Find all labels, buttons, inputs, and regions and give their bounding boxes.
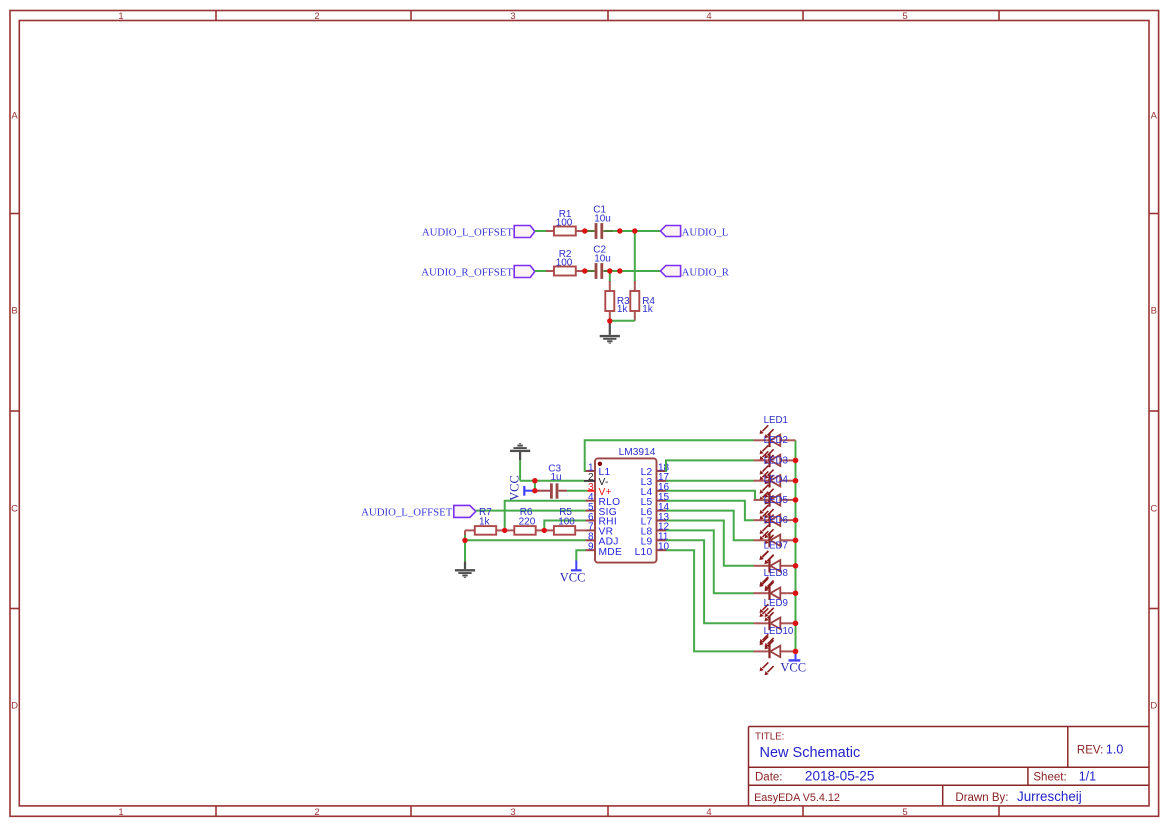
LED LED10 (754, 626, 796, 675)
junction R6/R5 RHI (542, 528, 547, 533)
LED LED7 (754, 541, 796, 590)
svg-text:LED3: LED3 (764, 455, 788, 466)
svg-text:VCC: VCC (560, 570, 586, 584)
junction V+ row (532, 488, 537, 493)
capacitor C1 (593, 205, 611, 239)
svg-text:Jurrescheij: Jurrescheij (1017, 789, 1082, 804)
LED LED1 (754, 415, 796, 464)
wire AUDIO_R node down to R3 (609, 271, 611, 282)
wire pin 12 to LED8 (666, 530, 754, 593)
junction bus LED2 (793, 458, 799, 464)
ground (above C3, rotated) (510, 443, 530, 460)
wire R1 to C1 (576, 230, 585, 232)
wire port to R2 (535, 270, 547, 272)
junction R7/R6 RLO (502, 528, 507, 533)
svg-text:1k: 1k (479, 516, 491, 527)
pin 9 MDE (586, 542, 623, 559)
node AUDIO_L_OFFSET port (at SIG) (361, 505, 476, 518)
pin 8 ADJ (586, 532, 619, 548)
svg-text:EasyEDA V5.4.12: EasyEDA V5.4.12 (754, 792, 840, 804)
junction bus LED8 (793, 590, 799, 596)
svg-text:New Schematic: New Schematic (760, 745, 861, 761)
wire junction V- to V+ row (534, 481, 536, 491)
LED LED9 (754, 598, 796, 647)
svg-text:220: 220 (519, 516, 536, 527)
junction R2/C2 (582, 268, 587, 273)
wire pin 13 to LED7 (666, 521, 754, 566)
wire pin 11 to LED9 (666, 540, 754, 623)
svg-text:A: A (1151, 111, 1158, 122)
wire VCC junction to C3 (536, 490, 550, 492)
resistor R2 (554, 249, 576, 276)
wire C3 to pin 3 (559, 490, 567, 492)
wire pin 17 to LED3 (666, 480, 754, 482)
svg-text:B: B (11, 306, 17, 317)
junction bus LED7 (793, 563, 799, 569)
svg-text:100: 100 (556, 217, 573, 228)
svg-text:LED9: LED9 (764, 598, 788, 609)
pin 3 V+ (588, 482, 612, 498)
svg-text:5: 5 (902, 11, 907, 22)
svg-text:4: 4 (706, 11, 711, 22)
wire pin 14 to LED6 (666, 511, 754, 541)
junction AUDIO_L wire (617, 228, 622, 233)
wire pin 18 to LED2 (665, 460, 754, 471)
wire port to pin 5 SIG (476, 510, 586, 512)
wire AUDIO_L node down to R4 (634, 231, 636, 282)
ground (below R3/R4) (600, 321, 620, 344)
svg-text:TITLE:: TITLE: (755, 732, 784, 743)
svg-text:100: 100 (558, 516, 575, 527)
svg-text:1u: 1u (551, 472, 562, 483)
pin 13 L7 (641, 512, 670, 528)
LED LED8 (754, 568, 796, 617)
svg-text:LED1: LED1 (764, 415, 788, 426)
svg-text:LED2: LED2 (764, 435, 788, 446)
svg-text:VCC: VCC (780, 661, 806, 675)
title block (749, 727, 1150, 806)
svg-text:C: C (11, 504, 18, 515)
wire VCC bus (right of LEDs) (795, 440, 797, 651)
resistor R6 (505, 507, 545, 534)
svg-text:Date:: Date: (755, 771, 783, 783)
capacitor C2 (593, 245, 611, 279)
pin 7 VR (586, 522, 614, 538)
wire ADJ row to pin 8 (465, 539, 586, 541)
VCC net flag (bus bottom) (780, 651, 806, 674)
svg-text:2018-05-25: 2018-05-25 (805, 768, 875, 783)
svg-text:2: 2 (314, 11, 319, 22)
svg-text:3: 3 (510, 807, 515, 818)
svg-text:VCC: VCC (508, 475, 522, 501)
pin 16 L4 (641, 482, 670, 498)
svg-text:10u: 10u (594, 254, 611, 265)
resistor R7 (465, 507, 505, 534)
svg-text:REV:: REV: (1077, 745, 1103, 757)
pin 6 RHI (586, 512, 617, 528)
resistor R1 (554, 209, 576, 236)
wire R4 bottom joining R3 node (634, 311, 636, 321)
node AUDIO_L_OFFSET port (top) (422, 226, 535, 239)
svg-text:Sheet:: Sheet: (1033, 771, 1066, 783)
svg-text:B: B (1151, 306, 1157, 317)
pin 2 V- (584, 472, 609, 488)
svg-text:2: 2 (314, 807, 319, 818)
wire pin 1 up and over to LED1 (585, 440, 754, 471)
ground (bottom left) (455, 562, 475, 578)
svg-text:D: D (1150, 701, 1157, 712)
wire C2 to AUDIO_R port (603, 270, 612, 272)
wire C1 to AUDIO_L port (603, 230, 613, 232)
wire R7 left end down to ground / ADJ (464, 530, 466, 536)
LED LED3 (754, 455, 796, 504)
node AUDIO_R_OFFSET port (421, 266, 535, 279)
resistor R4 (630, 291, 655, 315)
resistor R3 (605, 291, 630, 315)
op-amp U1 : LM3914 IC body (595, 447, 657, 562)
wire V- row to pin 2 (520, 480, 584, 482)
svg-text:LED8: LED8 (764, 568, 788, 579)
svg-text:5: 5 (902, 807, 907, 818)
svg-text:AUDIO_L_OFFSET: AUDIO_L_OFFSET (361, 507, 453, 519)
junction dots (462, 228, 798, 654)
wire pin 9 MDE to VCC flag (576, 550, 585, 560)
wire R2 to C2 (576, 270, 585, 272)
svg-text:1: 1 (118, 807, 123, 818)
wire pin 15 to LED5 (666, 501, 754, 521)
wire R3 bottom to ground (609, 311, 611, 321)
node AUDIO_L port (661, 226, 729, 239)
junction R3/R4 ground node (607, 318, 612, 323)
wire ground down to V- row (519, 460, 521, 480)
svg-text:1/1: 1/1 (1079, 769, 1096, 783)
wire pin 4 RLO down to R7/R6 node (505, 501, 586, 531)
svg-text:LED6: LED6 (764, 515, 788, 526)
wire port to R1 (535, 230, 547, 232)
pin 5 SIG (586, 502, 617, 518)
junction AUDIO_R wire (617, 268, 622, 273)
junction bus LED3 (793, 478, 799, 484)
LED LED2 (754, 435, 796, 484)
junction bus LED10 (793, 649, 799, 655)
wire pin 16 to LED4 (666, 491, 770, 500)
svg-text:AUDIO_L: AUDIO_L (682, 227, 729, 239)
pin 11 L9 (641, 532, 669, 548)
pin 10 L10 (635, 542, 670, 559)
junction bus LED9 (793, 621, 799, 627)
pin 18 L2 (641, 462, 670, 478)
junction bus LED6 (793, 538, 799, 544)
svg-text:LM3914: LM3914 (619, 447, 656, 458)
pin 1 L1 (586, 462, 611, 478)
pin 4 RLO (586, 492, 621, 508)
svg-text:9: 9 (588, 542, 594, 553)
svg-text:MDE: MDE (599, 547, 623, 558)
svg-text:L9: L9 (641, 537, 653, 548)
svg-text:D: D (11, 701, 18, 712)
junction bus LED4 (793, 497, 799, 503)
junction ADJ node (462, 538, 467, 543)
pin 14 L6 (641, 502, 670, 518)
pin 15 L5 (641, 492, 670, 508)
wire pin 6 RHI down to R6/R5 node (544, 521, 585, 531)
svg-text:LED10: LED10 (764, 626, 794, 637)
svg-text:AUDIO_R_OFFSET: AUDIO_R_OFFSET (421, 267, 513, 279)
wire pin 10 to LED10 (666, 550, 754, 651)
svg-text:1: 1 (118, 11, 123, 22)
svg-text:Drawn By:: Drawn By: (955, 792, 1008, 804)
junction node to R3 (607, 268, 612, 273)
pin 17 L3 (641, 472, 670, 488)
LED LED5 (754, 495, 796, 544)
node AUDIO_R port (661, 266, 730, 279)
svg-text:10u: 10u (594, 214, 611, 225)
VCC net flag (below MDE) (560, 561, 586, 585)
junction bus LED5 (793, 517, 799, 523)
capacitor C3 (548, 464, 561, 499)
VCC net flag (left of C3) (508, 475, 535, 501)
svg-text:1k: 1k (617, 304, 629, 315)
pin 12 L8 (641, 522, 670, 538)
svg-text:ADJ: ADJ (599, 537, 619, 548)
resistor R5 (544, 507, 585, 534)
svg-text:AUDIO_R: AUDIO_R (682, 267, 730, 279)
svg-text:AUDIO_L_OFFSET: AUDIO_L_OFFSET (422, 227, 514, 239)
junction V- row (532, 478, 537, 483)
svg-text:C: C (1150, 504, 1157, 515)
svg-text:1.0: 1.0 (1106, 743, 1123, 757)
svg-text:100: 100 (556, 257, 573, 268)
svg-text:1k: 1k (642, 304, 654, 315)
svg-text:A: A (11, 111, 18, 122)
svg-text:L10: L10 (635, 547, 653, 558)
LED LED4 (754, 475, 796, 524)
svg-text:3: 3 (510, 11, 515, 22)
svg-text:LED4: LED4 (764, 475, 789, 486)
svg-text:LED5: LED5 (764, 495, 788, 506)
svg-text:4: 4 (706, 807, 711, 818)
svg-text:LED7: LED7 (764, 541, 788, 552)
junction node to R4 (632, 228, 637, 233)
junction R1/C1 (582, 228, 587, 233)
LED LED6 (754, 515, 796, 564)
